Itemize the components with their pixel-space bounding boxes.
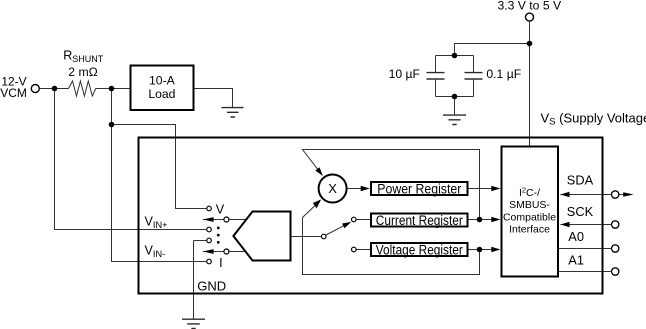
- svg-text:10 µF: 10 µF: [389, 67, 420, 81]
- svg-text:Voltage Register: Voltage Register: [376, 243, 463, 258]
- svg-text:3.3 V to 5 V: 3.3 V to 5 V: [497, 0, 562, 12]
- svg-text:0.1 µF: 0.1 µF: [486, 67, 521, 81]
- svg-text:X: X: [328, 181, 337, 196]
- svg-text:Load: Load: [148, 87, 175, 101]
- svg-text:A1: A1: [568, 252, 584, 267]
- svg-text:SMBUS-: SMBUS-: [509, 199, 550, 211]
- svg-text:V: V: [216, 203, 225, 217]
- svg-text:Power Register: Power Register: [377, 182, 461, 197]
- svg-text:SCK: SCK: [567, 204, 594, 219]
- svg-text:Current Register: Current Register: [376, 213, 463, 228]
- svg-text:10-A: 10-A: [149, 73, 176, 87]
- svg-text:GND: GND: [197, 279, 226, 294]
- svg-text:A0: A0: [568, 229, 584, 244]
- svg-text:2 mΩ: 2 mΩ: [68, 65, 97, 79]
- svg-text:I: I: [219, 256, 223, 270]
- svg-text:Interface: Interface: [509, 223, 550, 235]
- svg-text:Compatible: Compatible: [503, 211, 556, 223]
- svg-text:VCM: VCM: [0, 86, 27, 100]
- svg-text:VS (Supply Voltage): VS (Supply Voltage): [541, 110, 646, 127]
- svg-text:SDA: SDA: [567, 173, 594, 188]
